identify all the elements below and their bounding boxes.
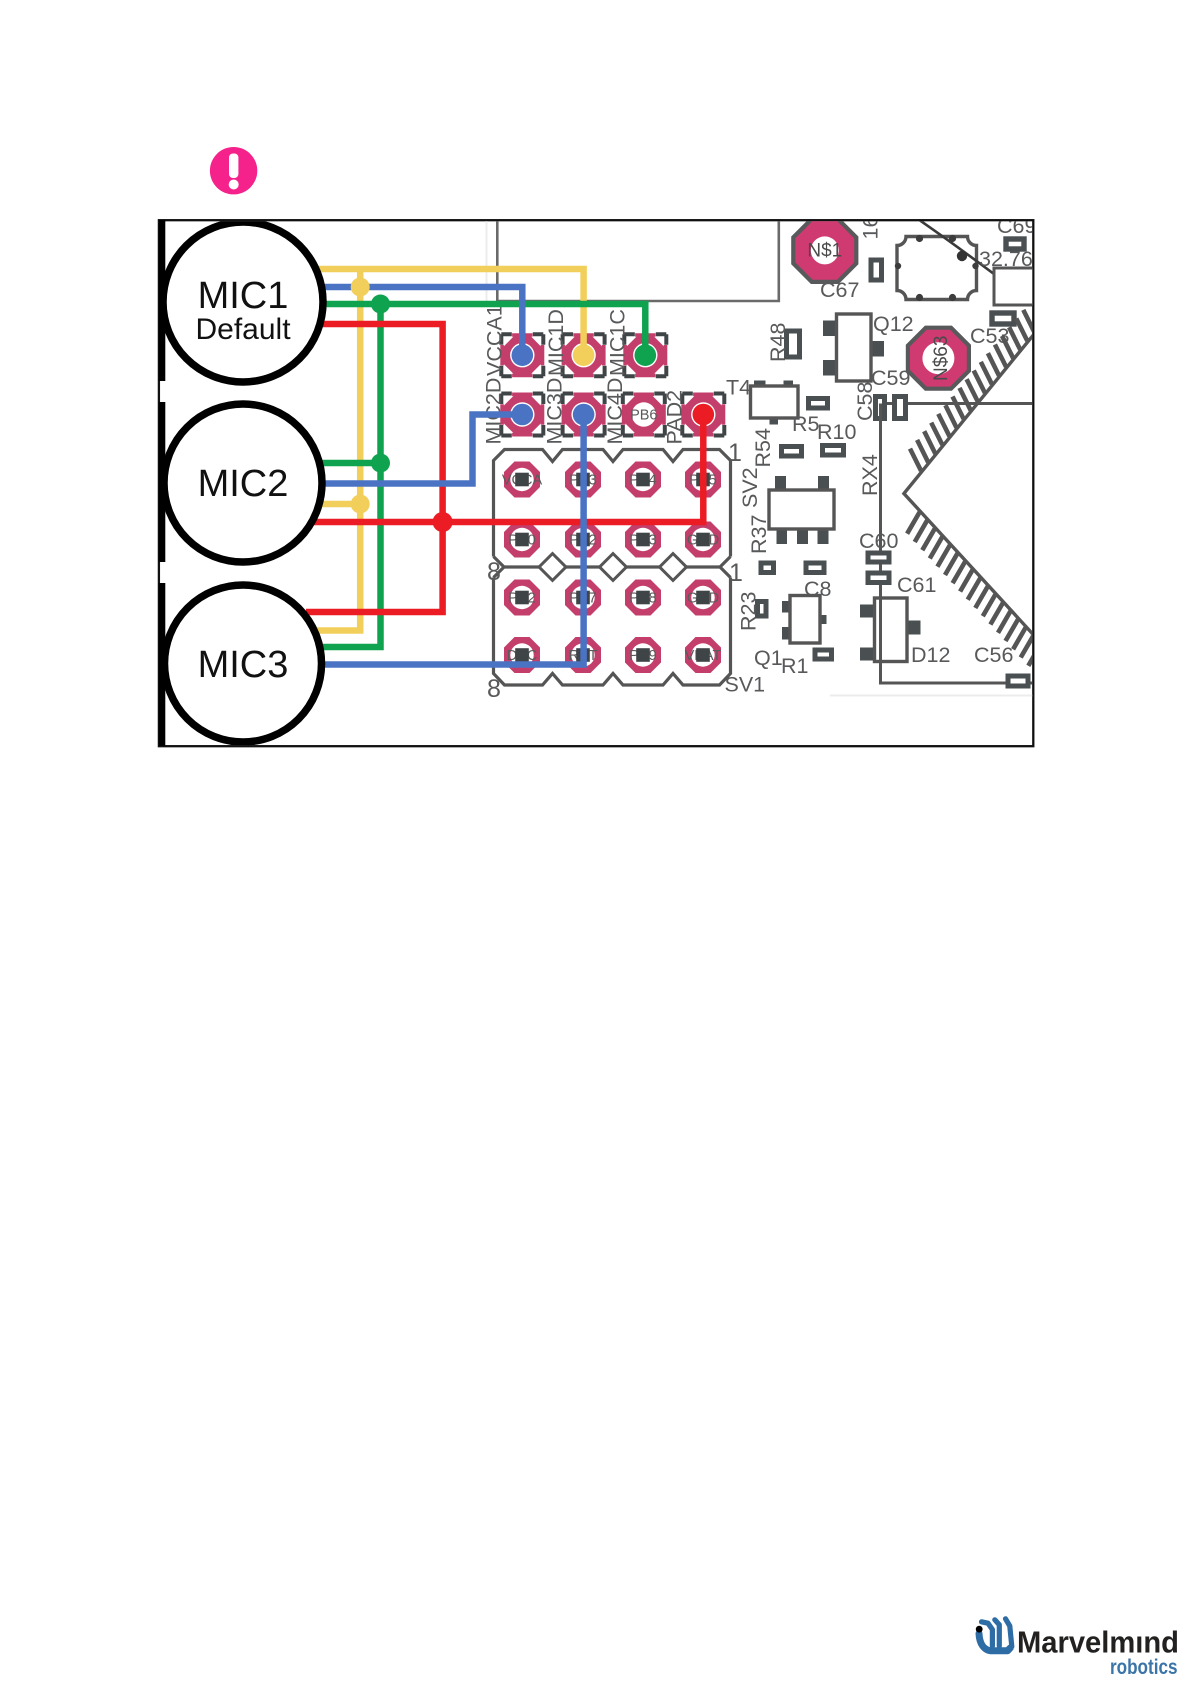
svg-text:MIC1: MIC1 [198, 275, 289, 317]
resistor R5 [782, 447, 802, 457]
svg-text:MIC1C: MIC1C [606, 309, 630, 376]
box right of crystal [994, 268, 1038, 305]
wire red MIC1-MIC3 [306, 324, 443, 612]
svg-text:1: 1 [729, 559, 743, 587]
wire red MIC2-PAD2 [308, 415, 703, 523]
svg-text:R1: R1 [781, 654, 808, 678]
svg-text:Marvelmınd: Marvelmınd [1017, 1626, 1179, 1660]
capacitor C53 [992, 313, 1014, 324]
svg-text:8: 8 [487, 558, 501, 586]
svg-text:T4: T4 [726, 376, 751, 400]
header diamond [539, 554, 566, 581]
wire yellow branch vertical [314, 269, 360, 631]
svg-text:Default: Default [195, 313, 291, 346]
Marvelmind logo icon [979, 1619, 1012, 1651]
header pad DAC [504, 637, 540, 673]
header pad PB3 [625, 522, 661, 558]
pad MIC4D [623, 394, 665, 436]
pad MIC1D [561, 334, 606, 376]
header pad PB5 [685, 462, 721, 498]
svg-text:PB6: PB6 [630, 408, 657, 424]
svg-text:SV2: SV2 [738, 467, 762, 508]
svg-text:8: 8 [487, 675, 501, 703]
pad VCCA1 [501, 334, 543, 376]
svg-text:N$63: N$63 [931, 336, 952, 381]
svg-text:R54: R54 [751, 428, 775, 467]
svg-text:R5: R5 [792, 412, 820, 436]
svg-text:Q1: Q1 [754, 646, 783, 670]
svg-text:D12: D12 [911, 643, 950, 667]
resistor R48 [787, 331, 800, 357]
pad MIC2D [500, 394, 545, 436]
resistor pair below IC [761, 563, 774, 573]
pad N$63 [908, 328, 969, 389]
board left edge bar [159, 220, 166, 381]
hatch lower arm [907, 512, 1041, 666]
header pad VCCA [502, 462, 543, 498]
svg-text:MIC3D: MIC3D [543, 378, 567, 445]
svg-text:N$1: N$1 [807, 241, 842, 262]
svg-text:C58: C58 [853, 382, 877, 421]
junction yellow A [351, 278, 370, 297]
transistor C8/Q1 [782, 596, 827, 644]
pad N$1 [793, 219, 856, 282]
capacitor C69 [1006, 239, 1024, 249]
header pad GND [685, 522, 721, 558]
resistor R23 [758, 602, 767, 617]
junction green A [371, 295, 390, 314]
diode D12 [860, 598, 921, 662]
transistor Q12 [823, 314, 884, 381]
node MIC2D [512, 404, 534, 426]
svg-text:RX4: RX4 [858, 454, 882, 496]
wire blue MIC1-VCCA1 [312, 287, 522, 355]
hatch upper arm [910, 310, 1034, 471]
svg-text:MIC4D: MIC4D [603, 378, 627, 445]
header pad GND [685, 580, 721, 616]
header pad RST [565, 637, 601, 673]
MIC3 circle [165, 585, 322, 742]
svg-text:R48: R48 [766, 323, 790, 362]
junction green B [371, 454, 390, 473]
svg-text:C67: C67 [820, 278, 859, 302]
crystal body [897, 237, 977, 300]
node MIC1D [573, 344, 595, 366]
wire green MIC2 stub [313, 460, 381, 467]
warning icon [210, 147, 257, 194]
capacitor C60 [868, 553, 889, 562]
arc (board circle) [915, 217, 1032, 303]
IC sot23-5 [769, 476, 834, 544]
transistor T4 [751, 381, 799, 425]
RX4 net line [881, 404, 1034, 684]
wire green MIC1-MIC1C [310, 304, 645, 355]
node MIC1C [635, 344, 657, 366]
top region outline [497, 220, 779, 302]
header pad PB4 [625, 462, 661, 498]
MIC2 circle [164, 404, 322, 562]
pad MIC1C [623, 334, 668, 376]
node PAD2 [693, 404, 715, 426]
header pad PB0 [504, 522, 540, 558]
board edge chevron [904, 332, 1040, 642]
C58 net line [878, 402, 1033, 405]
svg-text:R37: R37 [747, 515, 771, 554]
header interface line [505, 565, 720, 568]
wire green branch vertical [316, 304, 381, 647]
svg-text:MIC3: MIC3 [198, 644, 289, 686]
pad PAD2 [682, 394, 724, 436]
header pad PB8 [625, 580, 661, 616]
resistor above R5 [809, 399, 828, 409]
svg-text:VCCA1: VCCA1 [483, 304, 507, 376]
logo eye dot [976, 1626, 983, 1633]
junction yellow B [351, 495, 370, 514]
svg-text:R10: R10 [817, 420, 856, 444]
svg-text:C56: C56 [974, 643, 1013, 667]
svg-text:robotics: robotics [1110, 1656, 1178, 1679]
wire yellow MIC1-MIC1D [310, 269, 584, 355]
screenshot frame [159, 220, 1033, 746]
svg-text:MIC1D: MIC1D [544, 309, 568, 376]
header pad VBAT [685, 637, 722, 673]
svg-text:1: 1 [728, 439, 742, 467]
wire yellow MIC2 stub [310, 501, 360, 508]
header pad PB2 [504, 580, 540, 616]
pad MIC3D [561, 394, 606, 436]
header SV1 outline [494, 578, 731, 686]
MIC1 circle [163, 222, 323, 382]
svg-text:MIC2: MIC2 [198, 463, 289, 505]
resistor near 16 [871, 260, 882, 280]
header pad PB3 [565, 462, 601, 498]
node MIC3D [573, 404, 595, 426]
wire blue MIC2-MIC2D [308, 415, 522, 484]
header pad PB2 [565, 522, 601, 558]
header pad PB7 [565, 580, 601, 616]
svg-text:Q12: Q12 [873, 312, 914, 336]
capacitor C58 [876, 397, 885, 419]
faint region lines [486, 220, 488, 301]
node VCCA1 [512, 344, 534, 366]
resistor R1 [815, 650, 832, 659]
svg-text:SV1: SV1 [725, 673, 766, 697]
header diamond [600, 554, 627, 581]
svg-text:MIC2D: MIC2D [481, 378, 505, 445]
header pad PB9 [625, 637, 661, 673]
header diamond [660, 554, 687, 581]
header SV2 outline [494, 450, 731, 557]
svg-text:R23: R23 [737, 592, 761, 631]
capacitor C56 [1008, 676, 1028, 686]
svg-text:C61: C61 [897, 573, 936, 597]
svg-text:PAD2: PAD2 [662, 390, 686, 445]
resistor R10 [823, 446, 844, 456]
svg-text:C60: C60 [859, 529, 898, 553]
wire blue MIC3-MIC3D [312, 415, 584, 665]
junction red [433, 512, 453, 532]
